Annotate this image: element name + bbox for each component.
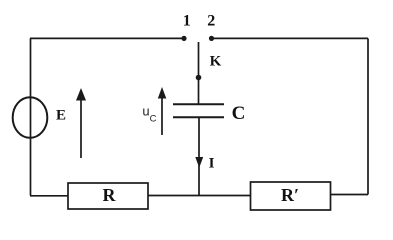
svg-text:2: 2 (207, 12, 215, 29)
svg-text:K: K (210, 53, 222, 69)
svg-text:R: R (103, 185, 117, 205)
svg-text:E: E (56, 108, 66, 124)
svg-text:C: C (232, 103, 246, 124)
svg-text:R′: R′ (281, 185, 299, 205)
svg-text:I: I (209, 156, 215, 172)
svg-text:u: u (142, 104, 149, 119)
svg-text:1: 1 (183, 12, 191, 29)
svg-text:C: C (150, 114, 157, 125)
